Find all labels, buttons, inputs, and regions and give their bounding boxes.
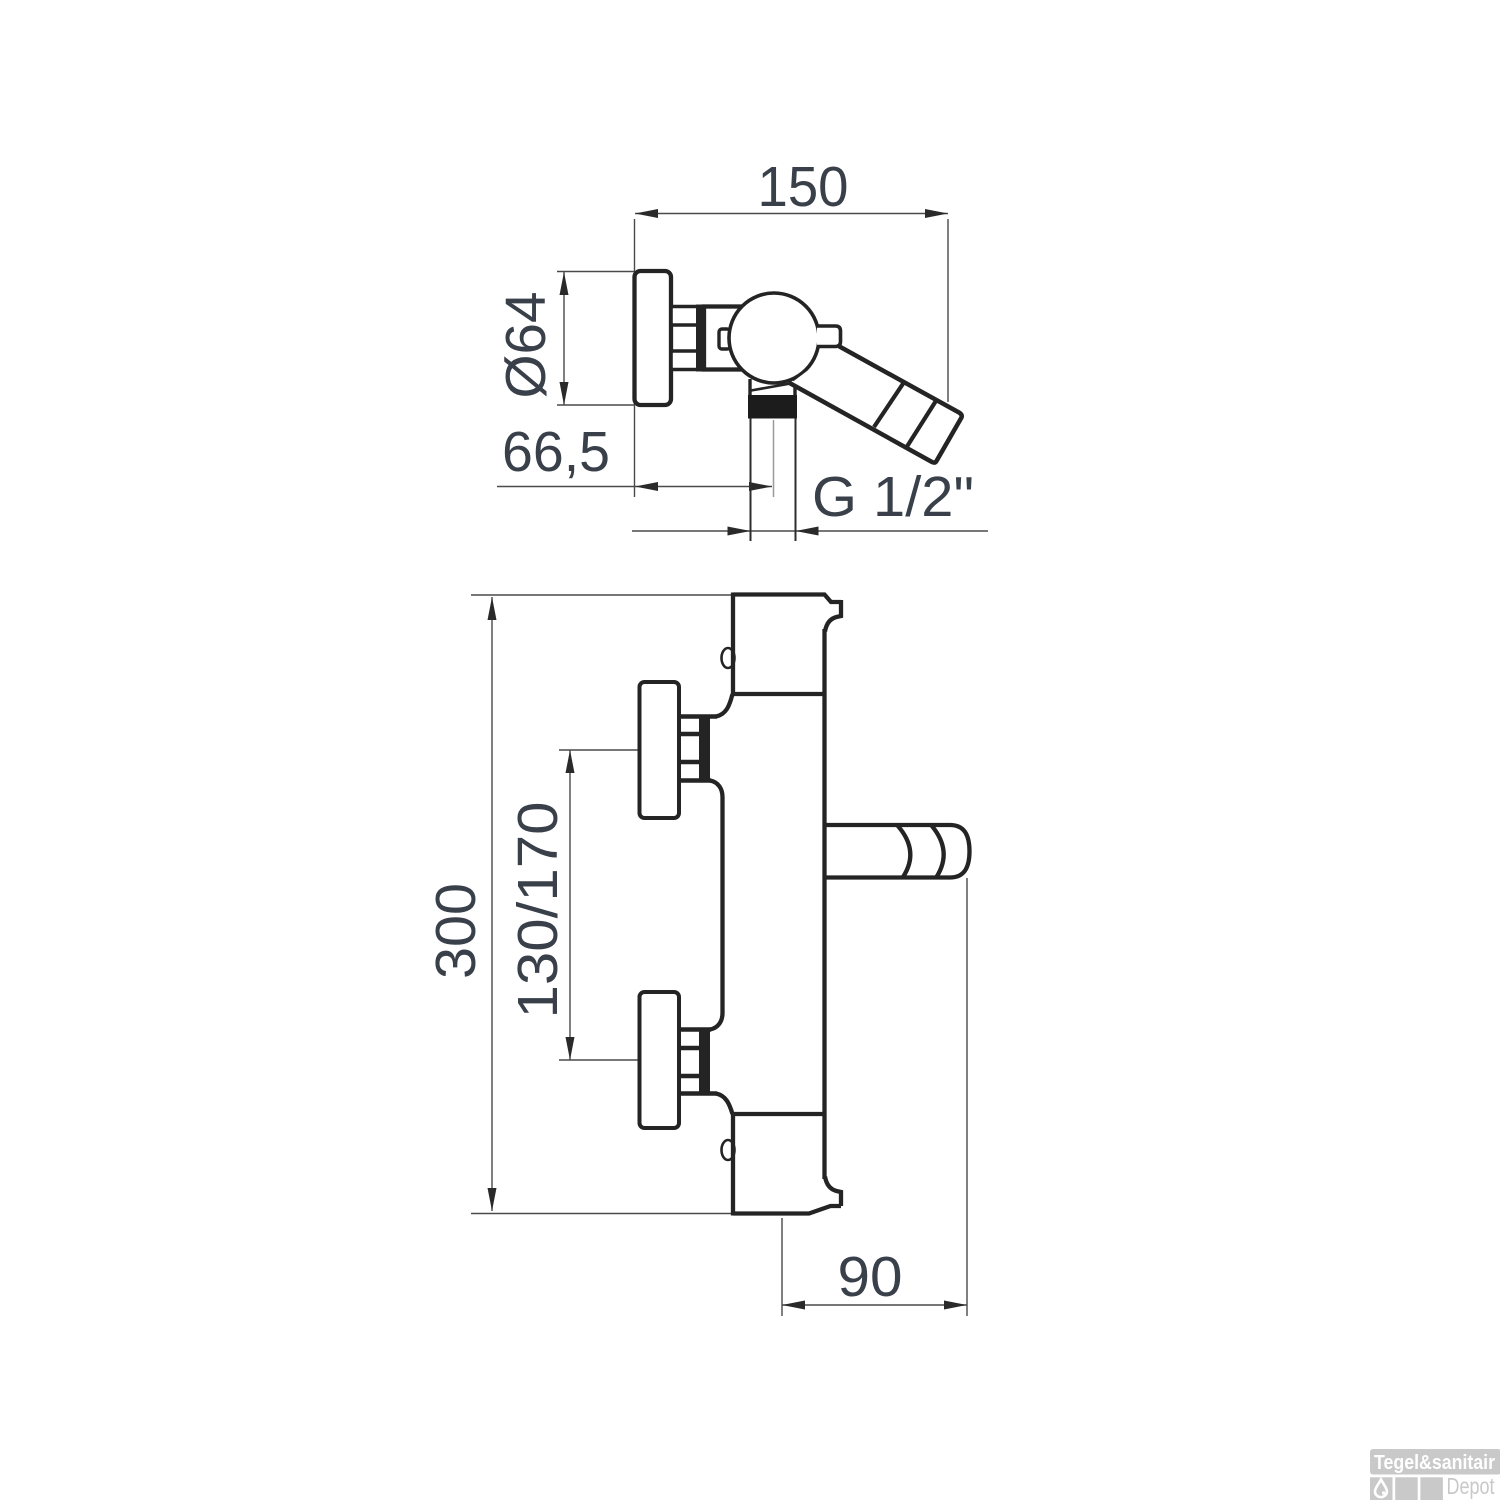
screw oval detail upper [722, 648, 735, 668]
dimension line 300 [491, 597, 493, 1211]
screw oval detail lower [722, 1140, 735, 1160]
lever handle outline [791, 347, 962, 463]
handle division line 1 [874, 382, 905, 428]
svg-text:66,5: 66,5 [502, 420, 610, 484]
svg-text:Depot: Depot [1447, 1473, 1495, 1499]
spout (stadium shape with rings) [825, 825, 970, 878]
dimension line Ø64 [563, 272, 565, 405]
arrow G 1/2 at right thread edge [796, 527, 819, 536]
arrow 130/170 up [566, 750, 575, 773]
svg-text:300: 300 [424, 883, 488, 979]
extension line top of Ø64 [557, 271, 634, 273]
handle division line 2 [907, 400, 937, 447]
upper knob (front view) [640, 682, 680, 818]
dimension line 150 [635, 213, 948, 215]
connector tab upper [671, 307, 698, 326]
extension line bottom of 130/170 [559, 1059, 640, 1061]
neck right edge [793, 379, 796, 397]
arrow Ø64 up [560, 272, 569, 295]
extension line top of 300 [471, 594, 732, 596]
svg-text:130/170: 130/170 [506, 802, 570, 1019]
arrow 300 down [488, 1188, 497, 1211]
threaded connection (black band) G 1/2 [748, 395, 797, 419]
lever handle fill (diagonal) [791, 347, 962, 463]
lower knob (front view) [640, 992, 680, 1128]
arrow 150 left [635, 209, 658, 218]
connector tab lower [671, 351, 698, 370]
upper knob tab lines [679, 714, 717, 719]
pipe edge line right [795, 419, 797, 542]
arrow G 1/2 at left thread edge [728, 527, 751, 536]
dimension line 130/170 [569, 750, 571, 1060]
lower knob tab lines [679, 1027, 711, 1032]
bottom block left edge [731, 1112, 735, 1216]
svg-text:90: 90 [838, 1245, 903, 1309]
valve body rectangle [704, 307, 746, 370]
pipe center line (gray) [773, 420, 775, 497]
water drop inner dot [1382, 1491, 1385, 1494]
watermark banner [1370, 1449, 1500, 1475]
extension line bottom of Ø64 [557, 404, 634, 406]
handle lower edge continuation over neck [751, 384, 791, 391]
arrow Ø64 down [560, 382, 569, 405]
extension line left of 150 [634, 219, 636, 497]
top block left edge [731, 593, 735, 697]
body bottom-right notch [825, 1177, 841, 1207]
arrow 90 right [944, 1301, 967, 1310]
shower hose neck below valve [749, 378, 796, 397]
spout ring 2 [932, 826, 944, 878]
mid-section left edge with curves [716, 694, 733, 717]
small left lug on thermostat knob [719, 329, 730, 349]
svg-text:Ø64: Ø64 [494, 292, 558, 399]
bottom block top edge [731, 1112, 825, 1116]
top block bottom edge [731, 692, 825, 696]
water drop icon [1375, 1480, 1387, 1498]
watermark square 2 [1395, 1477, 1418, 1500]
neck left edge [748, 379, 751, 397]
arrow 150 right [925, 209, 948, 218]
upper knob dark strip [699, 715, 710, 783]
pipe edge line left [750, 419, 752, 542]
extension line left of 90 [781, 1218, 783, 1316]
arrow 66,5 left [635, 482, 658, 491]
body right edge [822, 629, 826, 1179]
svg-text:Tegel&sanitair: Tegel&sanitair [1374, 1451, 1495, 1474]
wall plate (side view) [635, 271, 672, 405]
watermark square 1 [1370, 1477, 1393, 1500]
thermostat knob circle (top view) [729, 293, 819, 383]
body bottom edge [733, 1206, 841, 1214]
svg-text:G 1/2": G 1/2" [812, 465, 974, 529]
arrow 300 up [488, 597, 497, 620]
dimension line 90 [782, 1304, 967, 1306]
dimension line 66,5 [497, 486, 772, 488]
body top-right notch [825, 600, 841, 632]
body top block top edge [733, 595, 841, 603]
dimension line G 1/2 [632, 530, 988, 532]
right lug on knob [817, 326, 841, 347]
extension line right of 90 (from spout tip) [966, 878, 968, 1316]
svg-text:150: 150 [758, 155, 849, 219]
extension line bottom of 300 [471, 1213, 732, 1215]
arrow 90 left [782, 1301, 805, 1310]
extension line top of 130/170 [559, 749, 640, 751]
connector dark bar [696, 305, 705, 372]
watermark square 3 [1420, 1477, 1443, 1500]
lower knob dark strip [699, 1028, 710, 1096]
arrow 130/170 down [566, 1037, 575, 1060]
extension line right of 150 [947, 219, 949, 402]
arrow 66,5 right [749, 482, 772, 491]
spout ring 1 [898, 826, 911, 878]
